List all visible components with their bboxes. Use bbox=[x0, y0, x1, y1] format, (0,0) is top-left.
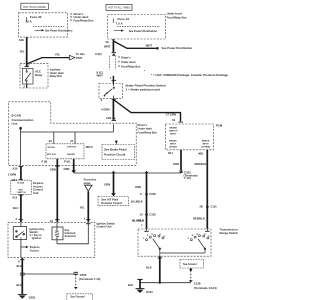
svg-text:See Power Distribution: See Power Distribution bbox=[162, 46, 193, 50]
svg-text:2 ORN: 2 ORN bbox=[8, 172, 16, 176]
svg-text:See Power Distribution: See Power Distribution bbox=[129, 29, 158, 33]
svg-text:Access: Access bbox=[30, 248, 40, 252]
svg-text:RED/BLK: RED/BLK bbox=[195, 162, 207, 166]
svg-text:GRN: GRN bbox=[104, 183, 110, 187]
svg-text:C101: C101 bbox=[211, 205, 218, 209]
svg-text:YEL: YEL bbox=[19, 49, 25, 53]
svg-text:BRAKE: BRAKE bbox=[202, 140, 210, 143]
svg-text:G101: G101 bbox=[146, 290, 153, 294]
svg-text:GRN: GRN bbox=[173, 162, 179, 166]
svg-text:* = USA: CMBS/NX Package; Cana: * = USA: CMBS/NX Package; Canada: Premiu… bbox=[151, 73, 228, 77]
svg-text:Fuse/Relay Box: Fuse/Relay Box bbox=[74, 18, 95, 22]
svg-text:P (6): P (6) bbox=[64, 159, 70, 163]
svg-text:BLK: BLK bbox=[17, 264, 23, 268]
svg-text:D11: D11 bbox=[168, 151, 173, 155]
svg-text:BLU/BLK: BLU/BLK bbox=[131, 199, 143, 203]
svg-text:4(D): 4(D) bbox=[198, 152, 203, 156]
svg-text:A29: A29 bbox=[106, 116, 112, 120]
svg-text:C128: C128 bbox=[194, 282, 201, 286]
svg-text:(Terminals 7-12): (Terminals 7-12) bbox=[79, 277, 100, 281]
svg-text:Fuse/Relay Box: Fuse/Relay Box bbox=[167, 16, 188, 20]
svg-text:B-CAN: B-CAN bbox=[17, 181, 24, 184]
svg-text:2B: 2B bbox=[200, 205, 203, 209]
svg-text:C506: C506 bbox=[149, 192, 156, 196]
svg-text:Unit: Unit bbox=[33, 191, 39, 195]
svg-text:page: page bbox=[76, 56, 83, 60]
svg-text:Position Circuit: Position Circuit bbox=[104, 152, 125, 156]
svg-text:HOT AT ALL TIMES: HOT AT ALL TIMES bbox=[108, 7, 130, 10]
svg-text:See Ground: See Ground bbox=[183, 263, 197, 266]
svg-text:G501: G501 bbox=[29, 296, 36, 300]
svg-text:Driver's: Driver's bbox=[121, 55, 131, 59]
svg-text:Keyless: Keyless bbox=[30, 245, 40, 249]
svg-text:BLU/BLK: BLU/BLK bbox=[132, 219, 144, 223]
svg-text:GRN: GRN bbox=[50, 168, 56, 172]
svg-text:(MT/AT): (MT/AT) bbox=[169, 145, 177, 148]
svg-text:RED/BLK: RED/BLK bbox=[193, 217, 205, 221]
svg-text:19: 19 bbox=[172, 118, 176, 122]
svg-text:Position Circuit.: Position Circuit. bbox=[101, 201, 123, 205]
svg-text:A13: A13 bbox=[12, 196, 17, 200]
svg-text:See Ground: See Ground bbox=[71, 295, 86, 298]
svg-text:Line: Line bbox=[12, 122, 18, 126]
svg-text:A24: A24 bbox=[12, 178, 17, 182]
svg-text:INPUT: INPUT bbox=[170, 133, 177, 135]
svg-text:Fuse/Relay Box: Fuse/Relay Box bbox=[121, 65, 141, 69]
svg-text:WHT: WHT bbox=[146, 43, 153, 47]
svg-text:Range Switch: Range Switch bbox=[220, 231, 239, 235]
svg-text:BRAKE: BRAKE bbox=[170, 126, 178, 129]
svg-text:WHT: WHT bbox=[97, 74, 104, 78]
svg-text:Fuse/Relay Box: Fuse/Relay Box bbox=[138, 131, 158, 135]
svg-text:C102: C102 bbox=[149, 212, 156, 216]
svg-text:Under-hood: Under-hood bbox=[167, 12, 183, 16]
svg-text:page.: page. bbox=[84, 181, 92, 185]
svg-text:INPUT: INPUT bbox=[202, 144, 209, 146]
svg-text:BLU: BLU bbox=[13, 206, 19, 210]
svg-text:7.5 A: 7.5 A bbox=[116, 21, 124, 25]
svg-text:Under-dash: Under-dash bbox=[121, 60, 136, 64]
svg-text:LED/KN: LED/KN bbox=[67, 154, 75, 156]
svg-text:HOT IN ACC MODE: HOT IN ACC MODE bbox=[23, 6, 46, 9]
svg-text:8 (D): 8 (D) bbox=[95, 52, 101, 56]
svg-text:A29: A29 bbox=[19, 38, 25, 42]
svg-text:SWITCH: SWITCH bbox=[169, 130, 178, 132]
svg-text:Driver's: Driver's bbox=[138, 123, 148, 127]
svg-text:Control Unit: Control Unit bbox=[97, 225, 112, 229]
svg-text:MICU: MICU bbox=[86, 145, 93, 149]
svg-text:INPUT: INPUT bbox=[170, 144, 177, 146]
svg-text:GRN: GRN bbox=[135, 185, 141, 189]
svg-text:Under-dash: Under-dash bbox=[138, 127, 153, 131]
svg-text:(OTHER): (OTHER) bbox=[201, 146, 210, 148]
svg-text:10 A: 10 A bbox=[25, 20, 32, 24]
svg-text:KEY SOL: KEY SOL bbox=[47, 154, 57, 156]
svg-text:YEL: YEL bbox=[80, 206, 86, 210]
svg-text:YEL: YEL bbox=[55, 53, 61, 57]
svg-text:(Terminals 13-24): (Terminals 13-24) bbox=[194, 286, 217, 290]
svg-text:1 = Brake pedal pressed: 1 = Brake pedal pressed bbox=[126, 87, 161, 91]
svg-text:ORN: ORN bbox=[64, 167, 70, 171]
svg-text:ignition: ignition bbox=[32, 236, 42, 240]
svg-text:See Power Distribution: See Power Distribution bbox=[45, 29, 73, 32]
svg-text:A10: A10 bbox=[13, 167, 18, 171]
svg-text:Relay Box: Relay Box bbox=[50, 75, 63, 78]
svg-text:RLY/AV: RLY/AV bbox=[48, 146, 56, 149]
svg-text:PCM: PCM bbox=[216, 123, 223, 127]
svg-text:P (6): P (6) bbox=[42, 160, 48, 164]
svg-text:LT GRN: LT GRN bbox=[166, 113, 176, 117]
svg-text:Fuse 32: Fuse 32 bbox=[30, 15, 42, 19]
svg-text:4 GRN: 4 GRN bbox=[101, 107, 110, 111]
svg-text:BLK: BLK bbox=[128, 283, 133, 287]
svg-text:10: 10 bbox=[140, 213, 143, 217]
svg-text:BLK: BLK bbox=[146, 266, 152, 270]
svg-text:Fuse 13: Fuse 13 bbox=[118, 17, 130, 21]
svg-text:WHT: WHT bbox=[104, 44, 111, 48]
svg-text:10: 10 bbox=[50, 219, 53, 223]
svg-text:BRAKE: BRAKE bbox=[169, 140, 177, 143]
svg-text:7-12): 7-12) bbox=[184, 176, 191, 180]
svg-text:See Brake Pedal: See Brake Pedal bbox=[104, 148, 127, 152]
svg-text:BLK: BLK bbox=[17, 283, 23, 287]
svg-text:2 WF RLY: 2 WF RLY bbox=[67, 147, 77, 149]
svg-text:Solenoid: Solenoid bbox=[65, 234, 76, 238]
svg-text:Relay: Relay bbox=[35, 73, 43, 77]
svg-text:SWITCH: SWITCH bbox=[17, 192, 26, 194]
